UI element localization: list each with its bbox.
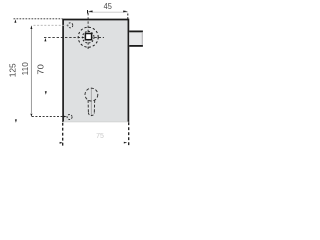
svg-text:75: 75 xyxy=(96,131,104,140)
dimension 125: bottom arrow xyxy=(15,119,17,122)
dimension 45: left extension tick xyxy=(87,10,89,14)
svg-text:45: 45 xyxy=(104,1,112,11)
dimension 125: top arrow xyxy=(14,19,16,22)
dimension 45: left arrow xyxy=(88,11,93,13)
screw hole bottom xyxy=(67,115,72,120)
svg-text:70: 70 xyxy=(36,63,45,74)
leader arrow at bottom screw hole xyxy=(64,116,67,118)
dimension 45: right extension tick xyxy=(127,14,129,20)
dimension 70: top arrow xyxy=(44,38,46,41)
keyhole slot bottom arc xyxy=(88,113,94,116)
dimension 110: line xyxy=(30,26,32,113)
spindle follower: square hole xyxy=(85,34,91,40)
dimension 110: bottom arrow xyxy=(30,114,32,117)
svg-text:110: 110 xyxy=(21,62,30,76)
dimension 75: right arrow xyxy=(124,142,127,144)
dimension 75: left arrow xyxy=(60,142,63,144)
dimension 70: bottom arrow xyxy=(45,91,47,94)
screw hole top xyxy=(68,23,73,28)
dimension 45: line xyxy=(88,11,128,13)
lock case body xyxy=(63,20,128,123)
bolt on right side xyxy=(129,31,143,46)
spindle follower: crosshair vertical xyxy=(87,13,89,51)
leader dashed: case top edge extension xyxy=(14,18,63,20)
hidden case outline below: dashed left edge xyxy=(62,123,64,146)
spindle follower: outer dashed circle xyxy=(78,27,98,47)
keyhole slot sides xyxy=(88,100,95,112)
leader dashed light: to top screw hole xyxy=(34,24,68,26)
hidden case outline below: dashed right edge xyxy=(128,122,130,146)
dimension 110: top arrow xyxy=(30,26,32,29)
spindle follower: crosshair horizontal xyxy=(44,36,104,38)
keyhole center line xyxy=(90,87,92,116)
dimension 45: right arrow xyxy=(123,11,128,13)
svg-text:125: 125 xyxy=(8,63,17,78)
spindle follower: inner dashed circle xyxy=(82,31,94,43)
keyhole circle xyxy=(85,88,98,101)
leader dashed: to bottom screw hole xyxy=(32,116,64,118)
